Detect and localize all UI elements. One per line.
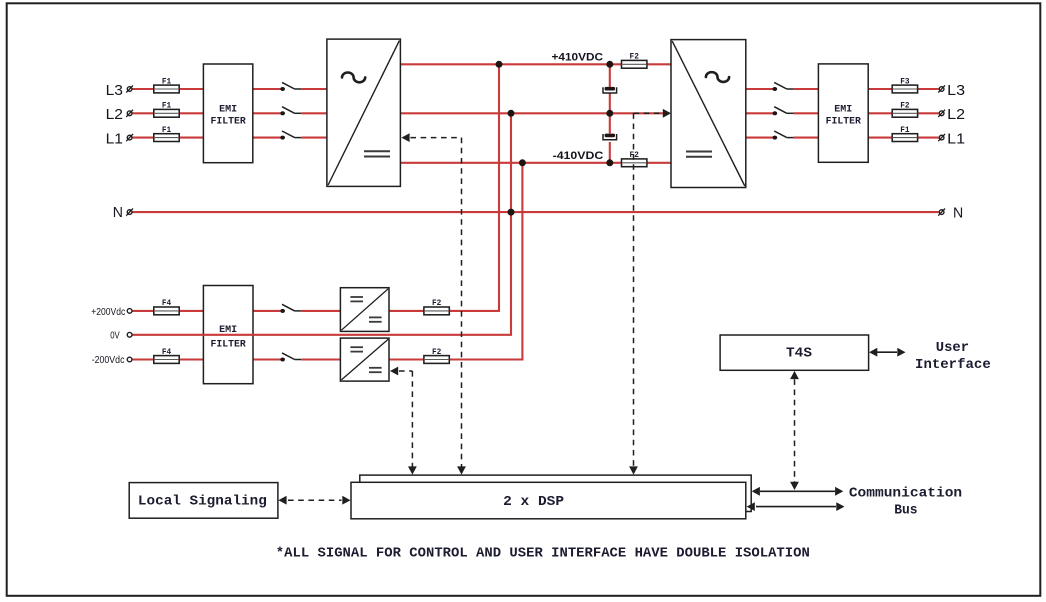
wire input L3 switch to rectifier	[301, 88, 327, 90]
node +410VDC / capacitor string junction	[606, 61, 613, 68]
rectifier block	[327, 39, 401, 186]
switch battery -200Vdc	[280, 353, 301, 362]
label -200Vdc	[92, 355, 125, 366]
capacitor DC link upper C1	[603, 87, 617, 93]
wire 0V through EMI filter	[202, 334, 253, 336]
switch input L3	[280, 82, 301, 91]
svg-text:L3: L3	[106, 82, 123, 99]
svg-text:FILTER: FILTER	[210, 338, 246, 350]
switch output L1	[772, 131, 793, 140]
wire input L3 terminal to fuse	[132, 88, 155, 90]
node neutral / 0V riser junction	[508, 209, 515, 216]
switch battery +200Vdc	[280, 304, 301, 313]
svg-text:EMI: EMI	[219, 103, 237, 115]
terminal input L3	[126, 85, 133, 92]
fuse F4 battery +200Vdc	[154, 298, 179, 315]
wire capacitor string middle	[609, 93, 611, 133]
svg-text:F2: F2	[900, 101, 909, 111]
wire DC/DC1 fuse to vertical riser	[448, 310, 500, 312]
svg-text:-200Vdc: -200Vdc	[92, 355, 125, 366]
switch input L2	[280, 107, 301, 116]
wire output L2 switch to EMI filter	[793, 112, 818, 114]
terminal input N	[126, 209, 133, 216]
wire output L3 inverter to switch	[746, 88, 773, 90]
label Communication Bus	[849, 485, 962, 518]
wire input L3 fuse to EMI filter	[179, 88, 204, 90]
terminal output N	[938, 209, 945, 216]
wire +200Vdc switch to DC/DC converter	[301, 310, 340, 312]
DSP back box	[360, 475, 751, 511]
node +410VDC / riser junction	[496, 61, 503, 68]
wire output L1 fuse to terminal	[917, 137, 939, 139]
fuse F2 -410VDC bus	[622, 150, 647, 167]
wire vertical -410 to -200Vdc converter output	[521, 163, 523, 360]
wire -200Vdc switch to DC/DC converter	[301, 358, 340, 360]
wire +200Vdc fuse to EMI filter	[179, 310, 204, 312]
dashed control DC/DC2 to DSP	[390, 367, 417, 475]
wire capacitor string lower	[609, 142, 611, 163]
terminal input L1	[126, 134, 133, 141]
node mid bus / capacitor mid junction	[606, 110, 613, 117]
svg-text:EMI: EMI	[834, 103, 852, 115]
wire DC/DC2 output to fuse F2	[389, 358, 424, 360]
svg-text:2 x DSP: 2 x DSP	[503, 494, 564, 510]
T4S box	[720, 335, 869, 370]
svg-text:F2: F2	[432, 298, 441, 308]
label L2 input	[106, 106, 123, 123]
wire +200Vdc terminal to fuse F4	[132, 310, 155, 312]
wire output L3 fuse to terminal	[917, 88, 939, 90]
Local Signaling box	[129, 483, 278, 519]
DC/DC converter 2 block	[340, 338, 389, 381]
node -410VDC / capacitor string junction	[606, 159, 613, 166]
wire input L2 terminal to fuse	[132, 112, 155, 114]
wire input L1 switch to rectifier	[301, 137, 327, 139]
wire -200Vdc fuse to EMI filter	[179, 358, 204, 360]
svg-text:F1: F1	[162, 101, 171, 111]
wire +410VDC bus rectifier to fuse F2	[400, 63, 621, 65]
terminal input L2	[126, 110, 133, 117]
dashed link T4S to Communication Bus	[790, 371, 799, 490]
svg-text:+200Vdc: +200Vdc	[91, 307, 125, 318]
node mid bus / riser junction	[508, 110, 515, 117]
wire vertical +410 to +200Vdc converter output	[498, 64, 500, 311]
wire input L1 terminal to fuse	[132, 137, 155, 139]
wire +410VDC bus fuse F2 to inverter	[647, 63, 671, 65]
wire output L3 switch to EMI filter	[793, 88, 818, 90]
wire output L2 inverter to switch	[746, 112, 773, 114]
wire input L2 switch to rectifier	[301, 112, 327, 114]
label +200Vdc	[91, 307, 125, 318]
fuse F1 input L2	[154, 101, 179, 118]
svg-text:L2: L2	[947, 106, 965, 123]
node -410VDC / riser junction	[519, 159, 526, 166]
fuse F1 input L1	[154, 125, 179, 142]
EMI filter input block	[203, 64, 252, 163]
label N input	[113, 204, 123, 221]
svg-text:F2: F2	[432, 347, 441, 357]
svg-text:Local Signaling: Local Signaling	[138, 493, 267, 509]
wire +200Vdc EMI filter to switch	[253, 310, 281, 312]
capacitor DC link lower C2	[603, 134, 617, 140]
label L1 input	[106, 130, 123, 147]
DC/DC converter 1 block	[340, 288, 389, 332]
svg-text:*ALL SIGNAL FOR CONTROL AND US: *ALL SIGNAL FOR CONTROL AND USER INTERFA…	[276, 546, 810, 562]
svg-text:Interface: Interface	[915, 357, 991, 373]
svg-text:F3: F3	[900, 76, 909, 86]
EMI filter output block	[818, 64, 868, 162]
arrow T4S to User Interface	[869, 348, 905, 357]
label -410VDC	[553, 150, 604, 162]
dashed link Local Signaling to DSP	[278, 496, 350, 505]
switch output L2	[772, 107, 793, 116]
svg-text:0V: 0V	[110, 331, 120, 342]
svg-text:L2: L2	[106, 106, 123, 123]
wire -200Vdc EMI filter to switch	[253, 358, 281, 360]
svg-text:L1: L1	[106, 130, 123, 147]
label +410VDC	[552, 52, 604, 64]
svg-text:-410VDC: -410VDC	[553, 150, 604, 162]
label L2 output	[947, 106, 965, 123]
svg-text:Bus: Bus	[894, 503, 917, 519]
label L3 output	[947, 82, 965, 99]
wire capacitor string upper	[609, 64, 611, 87]
fuse F4 battery -200Vdc	[154, 347, 179, 364]
fuse F2 DC/DC2 output	[424, 347, 449, 364]
wire vertical mid to 0V	[510, 113, 512, 334]
svg-text:N: N	[953, 204, 963, 221]
fuse F3 output L3	[892, 76, 917, 93]
svg-text:FILTER: FILTER	[826, 115, 862, 127]
arrow Communication Bus upper	[752, 487, 844, 496]
svg-text:F1: F1	[162, 125, 171, 135]
wire DC mid bus rectifier to inverter	[400, 112, 669, 114]
wire -410VDC bus fuse F2 to inverter	[647, 162, 671, 164]
wire DC/DC1 output to fuse F2	[389, 310, 424, 312]
wire output L1 EMI filter to fuse	[868, 137, 893, 139]
svg-text:F4: F4	[162, 298, 171, 308]
terminal output L2	[938, 110, 945, 117]
terminal battery 0V	[127, 332, 132, 337]
terminal output L3	[938, 85, 945, 92]
switch output L3	[772, 82, 793, 91]
fuse F2 output L2	[892, 101, 917, 118]
wire neutral N	[132, 211, 938, 213]
label N output	[953, 204, 963, 221]
fuse F2 DC/DC1 output	[424, 298, 449, 315]
switch input L1	[280, 131, 301, 140]
wire output L3 EMI filter to fuse	[868, 88, 893, 90]
svg-text:F1: F1	[900, 125, 909, 135]
fuse F1 output L1	[892, 125, 917, 142]
dashed control inverter to DSP	[629, 109, 671, 475]
terminal battery +200Vdc	[127, 309, 132, 314]
svg-text:L3: L3	[947, 82, 965, 99]
label 0V	[110, 331, 120, 342]
svg-text:T4S: T4S	[786, 345, 812, 361]
svg-text:F4: F4	[162, 347, 171, 357]
svg-text:L1: L1	[947, 130, 965, 147]
arrow Communication Bus lower	[747, 502, 845, 511]
svg-text:FILTER: FILTER	[210, 115, 246, 127]
wire 0V terminal to riser	[132, 334, 512, 336]
terminal output L1	[938, 134, 945, 141]
terminal battery -200Vdc	[127, 357, 132, 362]
note double isolation	[276, 546, 810, 562]
wire DC/DC2 fuse to vertical riser	[448, 358, 524, 360]
dashed control rectifier to DSP	[401, 133, 466, 474]
svg-text:F2: F2	[630, 52, 639, 62]
label User Interface	[915, 340, 991, 373]
DSP front box U-DSP	[351, 482, 746, 519]
label L1 output	[947, 130, 965, 147]
wire output L1 inverter to switch	[746, 137, 773, 139]
wire output L2 EMI filter to fuse	[868, 112, 893, 114]
wire input L2 fuse to EMI filter	[179, 112, 204, 114]
svg-text:User: User	[936, 340, 969, 356]
svg-text:N: N	[113, 204, 123, 221]
svg-text:+410VDC: +410VDC	[552, 52, 604, 64]
EMI filter battery block	[203, 286, 253, 384]
inverter block	[671, 40, 746, 188]
svg-text:F1: F1	[162, 76, 171, 86]
wire input L2 EMI filter to switch	[253, 112, 281, 114]
svg-text:Communication: Communication	[849, 485, 962, 501]
wire output L2 fuse to terminal	[917, 112, 939, 114]
wire input L3 EMI filter to switch	[253, 88, 281, 90]
wire -410VDC bus rectifier to fuse F2	[400, 162, 621, 164]
fuse F1 input L3	[154, 76, 179, 93]
fuse F2 +410VDC bus	[622, 52, 647, 69]
wire input L1 fuse to EMI filter	[179, 137, 204, 139]
wire input L1 EMI filter to switch	[253, 137, 281, 139]
label L3 input	[106, 82, 123, 99]
wire -200Vdc terminal to fuse F4	[132, 358, 155, 360]
wire output L1 switch to EMI filter	[793, 137, 818, 139]
